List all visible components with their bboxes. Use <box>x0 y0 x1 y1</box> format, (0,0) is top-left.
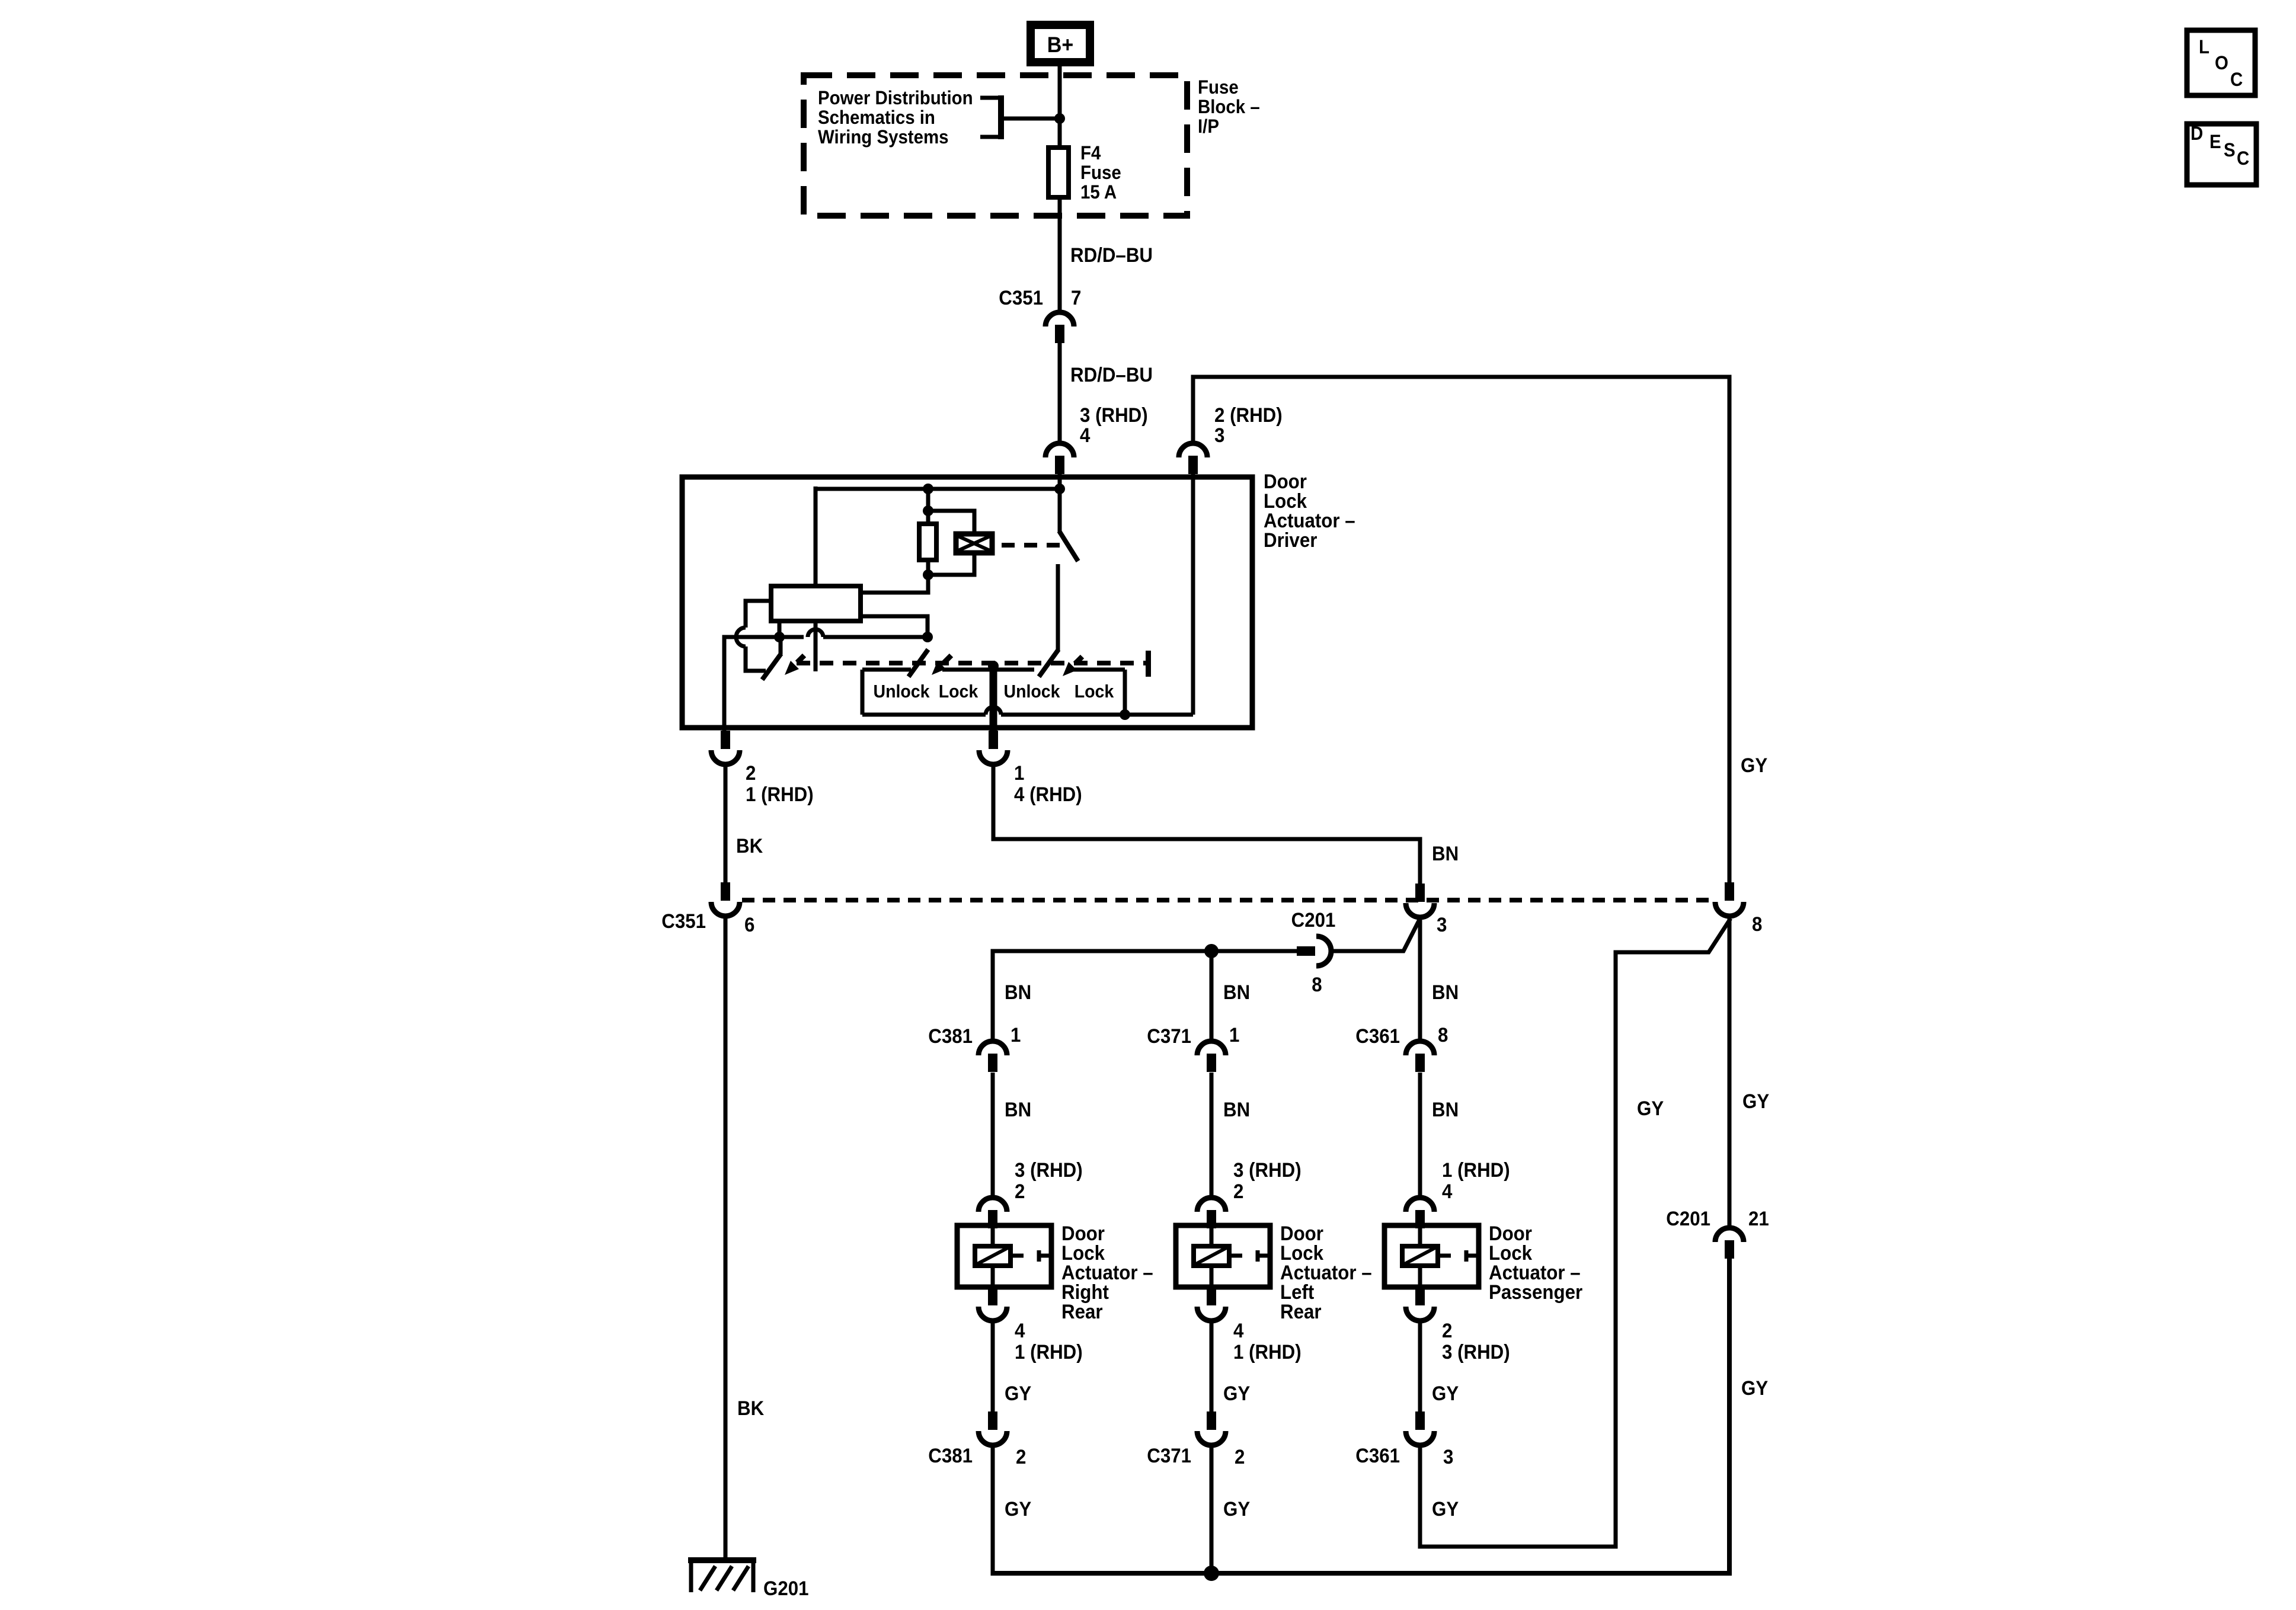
connector driver pin 2 <box>711 731 740 764</box>
mechanical link end tick <box>1146 651 1151 677</box>
wire GY middle <box>1728 916 1732 1228</box>
svg-text:F4: F4 <box>1080 142 1101 164</box>
svg-text:1: 1 <box>1011 1023 1021 1046</box>
label pins above actuator C371 <box>1233 1158 1302 1203</box>
switch 2 blade <box>909 649 928 677</box>
svg-text:2 (RHD): 2 (RHD) <box>1214 404 1283 427</box>
door lock actuator driver box <box>682 477 1252 728</box>
svg-text:1 (RHD): 1 (RHD) <box>746 783 814 806</box>
wire inner top bus <box>816 487 1060 491</box>
svg-text:RD/D–BU: RD/D–BU <box>1070 244 1153 267</box>
label BN at corner <box>1432 842 1459 865</box>
svg-text:3: 3 <box>1214 424 1224 447</box>
svg-text:GY: GY <box>1432 1382 1459 1405</box>
label pins above actuator C381 <box>1015 1158 1083 1203</box>
svg-text:C: C <box>2230 69 2243 90</box>
label pins below actuator C371 <box>1233 1319 1302 1363</box>
label GY lower C361 <box>1432 1497 1459 1521</box>
svg-text:I/P: I/P <box>1198 116 1219 137</box>
connector C381 pin 2 lower <box>978 1411 1007 1445</box>
svg-text:GY: GY <box>1742 1090 1769 1113</box>
svg-text:C381: C381 <box>928 1444 973 1467</box>
svg-text:Schematics in: Schematics in <box>818 107 935 128</box>
wire common bus y1075 <box>804 629 928 637</box>
label C381 2 lower <box>928 1444 1026 1468</box>
svg-text:BN: BN <box>1432 981 1459 1004</box>
label GY bottom <box>1741 1377 1768 1400</box>
switch motor (driver lock motor switch) <box>1058 489 1078 651</box>
wire GY right-rear to ground rail <box>991 1446 995 1576</box>
svg-text:4: 4 <box>1080 424 1090 447</box>
label actuator C361 <box>1489 1222 1582 1304</box>
label GY upper C381 <box>1005 1382 1031 1405</box>
svg-text:3: 3 <box>1443 1445 1453 1468</box>
svg-text:2: 2 <box>1442 1319 1452 1342</box>
svg-text:BN: BN <box>1005 1098 1031 1121</box>
svg-text:GY: GY <box>1432 1497 1459 1521</box>
svg-text:Rear: Rear <box>1280 1300 1322 1323</box>
svg-text:8: 8 <box>1752 913 1762 936</box>
label C371 2 lower <box>1147 1444 1245 1468</box>
svg-text:3 (RHD): 3 (RHD) <box>1442 1340 1510 1363</box>
wire top-right loop <box>1193 377 1729 883</box>
connector C361 pin 8 <box>1406 1041 1434 1072</box>
svg-text:4 (RHD): 4 (RHD) <box>1014 783 1082 806</box>
svg-text:BN: BN <box>1005 981 1031 1004</box>
label pins above actuator C361 <box>1442 1158 1510 1203</box>
wire BN distribution bus <box>993 951 1298 1042</box>
svg-text:Lock: Lock <box>1075 681 1114 702</box>
svg-text:7: 7 <box>1071 286 1081 309</box>
connector driver pin 1 <box>979 731 1008 764</box>
svg-text:3: 3 <box>1437 913 1447 936</box>
svg-text:1 (RHD): 1 (RHD) <box>1233 1340 1302 1363</box>
wire driver pin3 into box <box>1191 473 1195 715</box>
motor M crossed box <box>956 534 992 553</box>
linkage arrow at switch2 <box>932 655 951 675</box>
label 2 / 1 (RHD) <box>746 761 814 806</box>
label 3 at C201 <box>1437 913 1447 936</box>
wire coil pin left <box>778 621 782 637</box>
node dot rail right <box>1120 709 1130 720</box>
svg-text:2: 2 <box>1015 1180 1025 1203</box>
svg-text:GY: GY <box>1741 1377 1768 1400</box>
svg-text:Power Distribution: Power Distribution <box>818 87 973 108</box>
wire resistor bottom <box>926 560 930 577</box>
label GY middle <box>1742 1090 1769 1113</box>
svg-text:C351: C351 <box>661 910 706 933</box>
wire C351-7 to pin4 <box>1058 343 1062 443</box>
label C361 3 lower <box>1355 1444 1453 1468</box>
label C351 7 <box>999 286 1081 309</box>
door lock actuator box C361 <box>1384 1225 1479 1287</box>
wire BN to C371 connector <box>1210 951 1214 1042</box>
svg-text:8: 8 <box>1438 1023 1448 1046</box>
wire driver pin4 into box <box>1058 473 1062 491</box>
wire motor branch top <box>928 511 974 534</box>
ground G201 symbol <box>688 1558 756 1592</box>
connector C201 pin 8 inline <box>1297 936 1331 966</box>
svg-text:GY: GY <box>1005 1382 1031 1405</box>
label BK lower <box>737 1397 765 1420</box>
svg-text:4: 4 <box>1442 1180 1452 1203</box>
svg-text:15 A: 15 A <box>1080 181 1117 203</box>
label 2 (RHD) 3 <box>1214 404 1283 447</box>
label BN below C371 <box>1223 1098 1250 1121</box>
label GY lower C381 <box>1005 1497 1031 1521</box>
wire BK lower <box>724 916 728 1560</box>
svg-text:3 (RHD): 3 (RHD) <box>1015 1158 1083 1182</box>
wire BK upper <box>724 764 728 882</box>
connector C201 pin 8 right <box>1715 882 1744 916</box>
svg-text:BN: BN <box>1223 981 1250 1004</box>
svg-text:2: 2 <box>1233 1180 1243 1203</box>
svg-text:1 (RHD): 1 (RHD) <box>1442 1158 1510 1182</box>
svg-text:GY: GY <box>1741 754 1767 777</box>
connector driver pin 3 <box>1179 443 1207 474</box>
connector C381 pin 1 <box>978 1041 1007 1072</box>
wire motor branch bottom <box>928 553 974 575</box>
connector C201 pin 3 <box>1406 884 1434 917</box>
svg-text:1: 1 <box>1229 1023 1239 1046</box>
node dot top bus right <box>1054 484 1065 494</box>
svg-text:1 (RHD): 1 (RHD) <box>1015 1340 1083 1363</box>
label GY lower C371 <box>1223 1497 1250 1521</box>
label BN above C361 <box>1432 981 1459 1004</box>
connector C351 pin 7 <box>1045 312 1074 343</box>
C201 pass-through dashed line <box>742 898 1715 902</box>
svg-text:G201: G201 <box>763 1577 808 1600</box>
connector actuator bottom C371 <box>1197 1287 1226 1321</box>
svg-text:Lock: Lock <box>939 681 978 702</box>
svg-text:Fuse: Fuse <box>1198 76 1239 98</box>
label C381 1 <box>928 1023 1021 1048</box>
svg-text:2: 2 <box>1016 1445 1026 1468</box>
svg-text:BN: BN <box>1223 1098 1250 1121</box>
wire Y below C201-3 <box>1331 916 1420 1042</box>
svg-text:C201: C201 <box>1666 1207 1710 1230</box>
label C371 1 <box>1147 1023 1239 1048</box>
svg-text:BK: BK <box>737 1397 765 1420</box>
connector C361 pin 3 lower <box>1406 1411 1434 1445</box>
actuator motor symbol C361 <box>1402 1225 1479 1287</box>
svg-text:RD/D–BU: RD/D–BU <box>1070 363 1153 386</box>
label GY upper C371 <box>1223 1382 1250 1405</box>
connector actuator bottom C361 <box>1406 1287 1434 1321</box>
svg-text:S: S <box>2224 139 2236 161</box>
wire GY to C361 <box>1418 1320 1422 1413</box>
svg-text:C: C <box>2237 148 2249 169</box>
svg-text:2: 2 <box>746 761 756 785</box>
door lock actuator box C371 <box>1176 1225 1270 1287</box>
actuator motor symbol C371 <box>1194 1225 1270 1287</box>
svg-text:C361: C361 <box>1355 1444 1400 1467</box>
svg-text:L: L <box>2199 36 2209 57</box>
svg-text:Block –: Block – <box>1198 96 1260 117</box>
switch 1 (driver unlock) <box>762 637 781 680</box>
svg-text:Driver: Driver <box>1264 529 1318 552</box>
wire label RD/D-BU lower <box>1070 363 1153 386</box>
svg-text:Fuse: Fuse <box>1080 162 1121 183</box>
label pins below actuator C381 <box>1015 1319 1083 1363</box>
DESC reference box <box>2187 123 2256 185</box>
linkage arrow at switch1 <box>785 655 804 675</box>
label BN below C381 <box>1005 1098 1031 1121</box>
ground rail wire <box>993 1258 1729 1573</box>
svg-text:6: 6 <box>744 913 754 936</box>
connector C351 pin 6 <box>711 882 740 916</box>
power distribution reference note <box>818 87 973 148</box>
wire pin2 feed and common bus <box>724 637 804 733</box>
connector driver pin 4 <box>1045 443 1074 474</box>
svg-text:C371: C371 <box>1147 1025 1191 1048</box>
label 8 right <box>1752 913 1762 936</box>
wire resistor node to coil <box>863 575 928 593</box>
svg-text:GY: GY <box>1637 1097 1664 1120</box>
wire GY passenger loop <box>1420 918 1731 1547</box>
label actuator C371 <box>1280 1222 1372 1323</box>
label Door Lock Actuator Driver <box>1264 470 1355 552</box>
node dot top bus left <box>923 484 933 494</box>
svg-text:4: 4 <box>1233 1319 1243 1342</box>
svg-text:21: 21 <box>1748 1207 1769 1230</box>
svg-text:C371: C371 <box>1147 1444 1191 1467</box>
wire label RD/D-BU upper <box>1070 244 1153 267</box>
actuator motor symbol C381 <box>975 1225 1051 1287</box>
wire BN to actuator C361 <box>1418 1073 1422 1198</box>
svg-text:O: O <box>2215 52 2228 73</box>
wire BN to actuator C381 <box>991 1073 995 1198</box>
wire B+ to junction <box>1058 66 1062 148</box>
label 1 / 4 (RHD) <box>1014 761 1082 806</box>
node dot center contact <box>988 661 999 671</box>
wire BN to actuator C371 <box>1210 1073 1214 1198</box>
battery feed B+ terminal <box>1031 25 1090 62</box>
label BK upper <box>736 834 763 857</box>
label Unlock Lock right box <box>1003 681 1114 702</box>
label C201 21 <box>1666 1207 1769 1230</box>
node junction at fuse top <box>1054 113 1065 124</box>
label Fuse Block - I/P <box>1198 76 1260 137</box>
label 3 (RHD) 4 <box>1080 404 1148 447</box>
svg-text:Passenger: Passenger <box>1489 1281 1582 1304</box>
linkage arrow at switch3 <box>1063 657 1082 676</box>
label C351 6 <box>661 910 754 936</box>
svg-text:8: 8 <box>1312 973 1322 996</box>
connector actuator top C381 <box>978 1198 1007 1228</box>
label Unlock Lock left box <box>873 681 978 702</box>
connector actuator bottom C381 <box>978 1287 1007 1321</box>
fuse F4 15 A <box>1048 148 1069 197</box>
label F4 Fuse 15 A <box>1080 142 1121 203</box>
label GY passenger riser <box>1637 1097 1664 1120</box>
svg-text:GY: GY <box>1005 1497 1031 1521</box>
label C361 8 <box>1355 1023 1448 1048</box>
svg-text:3 (RHD): 3 (RHD) <box>1080 404 1148 427</box>
node dot ground rail <box>1204 1566 1219 1581</box>
label C201 8 inline <box>1291 908 1336 996</box>
svg-text:D: D <box>2191 123 2203 144</box>
svg-text:1: 1 <box>1014 761 1024 785</box>
wire coil to switch2 node <box>861 616 928 637</box>
label actuator C381 <box>1061 1222 1153 1323</box>
connector C371 pin 2 lower <box>1197 1411 1226 1445</box>
svg-text:Unlock: Unlock <box>1003 681 1060 702</box>
label BN above C371 <box>1223 981 1250 1004</box>
node dot switch2 top <box>922 632 933 642</box>
label GY upper C361 <box>1432 1382 1459 1405</box>
fuse block I/P dashed box <box>804 75 1187 216</box>
svg-text:C351: C351 <box>999 286 1043 309</box>
node dot coil left pin <box>774 632 785 642</box>
svg-text:BN: BN <box>1432 1098 1459 1121</box>
wire GY to C381 <box>991 1320 995 1413</box>
svg-text:4: 4 <box>1015 1319 1025 1342</box>
connector actuator top C371 <box>1197 1198 1226 1228</box>
mechanical link dashed line <box>797 661 1147 665</box>
unlock-lock box 1 outline <box>862 670 1125 715</box>
wire center contact down <box>990 666 997 731</box>
wire GY left-rear to ground rail <box>1210 1446 1214 1573</box>
svg-text:B+: B+ <box>1047 33 1073 57</box>
wire coil pin center to mech <box>814 621 818 671</box>
connector C371 pin 1 <box>1197 1041 1226 1072</box>
label BN above C381 <box>1005 981 1031 1004</box>
svg-text:3 (RHD): 3 (RHD) <box>1233 1158 1302 1182</box>
wire GY bottom <box>0 0 1 1</box>
connector actuator top C361 <box>1406 1198 1434 1228</box>
reference bracket <box>980 95 1060 139</box>
wire BN from pin1 <box>993 764 1420 884</box>
svg-text:2: 2 <box>1235 1445 1245 1468</box>
label GY top right <box>1741 754 1767 777</box>
door lock actuator box C381 <box>957 1225 1051 1287</box>
wire fuse to C351-7 <box>1058 197 1062 312</box>
svg-text:Unlock: Unlock <box>873 681 929 702</box>
resistor damping <box>919 524 936 560</box>
wire staircase coil left <box>736 601 771 671</box>
label pins below actuator C361 <box>1442 1319 1510 1363</box>
node dot resistor top <box>923 505 933 516</box>
relay coil box <box>771 586 861 621</box>
connector C201 pin 21 <box>1715 1228 1744 1259</box>
svg-text:GY: GY <box>1223 1497 1250 1521</box>
wire GY to C371 <box>1210 1320 1214 1413</box>
motor link dashed <box>1002 543 1068 548</box>
svg-text:C361: C361 <box>1355 1025 1400 1048</box>
unlock-lock bottom rail <box>862 707 1193 715</box>
wire bus to resistor <box>926 489 930 523</box>
svg-text:C381: C381 <box>928 1025 973 1048</box>
label G201 <box>763 1577 808 1600</box>
svg-text:BN: BN <box>1432 842 1459 865</box>
node dot BN bus <box>1204 944 1219 958</box>
svg-text:Wiring Systems: Wiring Systems <box>818 126 949 148</box>
label BN below C361 <box>1432 1098 1459 1121</box>
svg-text:BK: BK <box>736 834 763 857</box>
node dot resistor bottom <box>923 569 933 580</box>
svg-text:C201: C201 <box>1291 908 1336 932</box>
svg-text:GY: GY <box>1223 1382 1250 1405</box>
svg-text:Rear: Rear <box>1061 1300 1103 1323</box>
wire bus to relay coil <box>814 486 818 586</box>
svg-text:E: E <box>2209 131 2221 152</box>
switch 3 blade <box>1039 649 1059 677</box>
LOC reference box <box>2187 30 2255 95</box>
